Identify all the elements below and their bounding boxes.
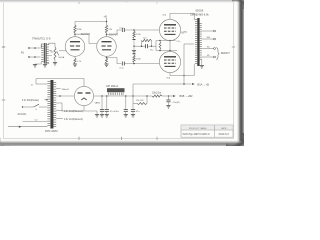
label 8 ohm OUT — [221, 51, 230, 55]
node grid R6 — [133, 63, 135, 65]
wire rail top — [156, 40, 176, 42]
bias bar R6 — [133, 53, 136, 55]
label T2 PMC 282M — [45, 130, 58, 133]
wire C5 to ground — [106, 111, 108, 114]
svg-text:5.0KΩ: 5.0KΩ — [182, 32, 188, 34]
svg-text:+B: +B — [104, 15, 108, 19]
title header date — [221, 127, 227, 130]
svg-text:25u: 25u — [150, 50, 153, 52]
svg-text:B1B →+B2: B1B →+B2 — [180, 94, 193, 98]
label filament1 — [64, 110, 83, 113]
label 50Hz — [35, 119, 39, 121]
B1B arrowhead — [173, 95, 176, 97]
wire over transformer to rectifier — [36, 79, 84, 87]
pentode V3 top — [159, 19, 180, 40]
label C4 C5 47u — [110, 111, 120, 113]
ground C7 — [131, 115, 135, 118]
input transformer T1 — [41, 43, 49, 64]
svg-text:6L6GTpp AMP KAIRO-Z: 6L6GTpp AMP KAIRO-Z — [183, 133, 211, 136]
wire R1 to V1 plate — [74, 33, 76, 37]
wire OPT center tap — [184, 43, 194, 45]
node rail top left — [159, 40, 161, 42]
label 0 ohm — [207, 55, 210, 57]
pot VR1 label — [59, 56, 65, 59]
label R3 — [77, 61, 82, 63]
node cap C6 — [125, 95, 127, 97]
capacitor C3 bias — [146, 44, 148, 48]
wire V1 plate to V2 grid — [75, 34, 97, 43]
title block vline — [214, 125, 216, 137]
label rail 2.2u — [177, 41, 181, 43]
label C1 0.1u — [120, 27, 125, 29]
wire V1 cathode — [74, 56, 76, 58]
title product text — [183, 133, 211, 136]
wire OPT sec tap A — [202, 30, 214, 32]
wire C8 to ground — [168, 102, 170, 106]
wire C7 to ground — [132, 111, 134, 114]
svg-text:5v: 5v — [31, 84, 33, 86]
wire input gnd — [30, 56, 41, 58]
title header product name — [189, 127, 207, 130]
wire heater stub2 — [56, 118, 63, 120]
page top edge fade — [0, 1, 244, 4]
wire HV tap stub — [56, 88, 60, 90]
wire input hot — [30, 47, 41, 49]
node CT riser crossing — [183, 75, 185, 77]
node HV — [59, 95, 61, 97]
label R6 270k — [136, 59, 142, 61]
output transformer OPT1 — [194, 18, 202, 66]
input terminal J1 hot — [28, 47, 30, 49]
wire +B drop — [106, 18, 108, 25]
wire rectifier bottom — [83, 106, 85, 111]
wire R9 to B1B arrow — [162, 95, 173, 97]
wire C1 to V3 grid — [124, 29, 159, 31]
wire 5v stub — [36, 83, 47, 85]
switch SW1 input dot — [22, 106, 23, 107]
wire AC cord — [8, 126, 47, 128]
border tick top 1 — [78, 0, 80, 4]
border tick bottom 1 — [78, 137, 80, 140]
wire T1 primary bottom to ground — [35, 62, 41, 64]
wire heater arrow — [45, 99, 48, 101]
node bias column — [133, 46, 134, 47]
wire HV tap to rectifier plate — [56, 95, 74, 97]
label OPT line2 — [190, 13, 209, 16]
node cap C4 — [101, 95, 103, 97]
choke CH1 — [107, 88, 125, 95]
node +B rail — [106, 21, 108, 23]
ground rectifier — [95, 115, 99, 118]
wire rectifier output — [94, 95, 152, 97]
wire C6 to ground — [125, 111, 127, 114]
wire R10 to C7 column — [133, 103, 137, 105]
node B1B cap — [168, 95, 170, 97]
resistor R7 bias — [142, 39, 152, 41]
wire C5 drop — [106, 96, 108, 109]
title date text — [218, 132, 229, 136]
svg-text:600: 600 — [51, 51, 54, 53]
label OPT 5.0K — [182, 32, 188, 34]
capacitor C2 — [122, 62, 124, 66]
wire C7 drop — [132, 96, 134, 109]
title block hline — [181, 129, 233, 131]
wire VR1 wiper to V1 grid — [59, 50, 66, 52]
svg-text:5AR4: 5AR4 — [95, 101, 101, 104]
label R9 10k2w — [152, 93, 161, 95]
capacitor C5 — [105, 110, 109, 112]
resistor R6 270k grid V4 — [133, 55, 135, 63]
bracket output — [216, 48, 219, 60]
potentiometer VR1 — [54, 47, 56, 60]
terminal 16 ohm — [214, 38, 216, 40]
label V4 6L6 — [167, 77, 171, 79]
label filament2 — [64, 118, 83, 121]
wire rail bottom — [156, 50, 177, 52]
svg-text:IN: IN — [21, 51, 24, 55]
switch SW1 input wire — [23, 106, 34, 108]
wire C2 to V4 grid — [124, 63, 159, 65]
label AC100v — [18, 113, 28, 116]
wire C4 to ground — [101, 111, 103, 114]
svg-text:6SN7GT: 6SN7GT — [109, 34, 119, 36]
svg-text:22k 2W: 22k 2W — [136, 100, 144, 102]
wire cathode rail post — [155, 41, 157, 51]
label 280mA — [62, 89, 69, 91]
wire +B rail — [75, 21, 107, 23]
node V2 cathode — [106, 57, 108, 59]
svg-text:280mΩ: 280mΩ — [62, 89, 69, 91]
wire bias net left post — [141, 41, 143, 47]
wire V3 screen stub — [181, 32, 185, 34]
terminal 8 ohm — [214, 48, 216, 50]
svg-text:AC100v: AC100v — [18, 113, 28, 116]
svg-text:PMC 282M: PMC 282M — [45, 130, 58, 133]
border tick bottom 3 — [156, 137, 158, 140]
wire C4 drop — [101, 96, 103, 109]
terminal 0 ohm — [214, 56, 216, 58]
svg-text:PRODUCT NAME: PRODUCT NAME — [189, 127, 207, 130]
wire OPT sec tap 8 — [202, 48, 214, 50]
wire R4 down — [133, 40, 135, 51]
label C7 47u — [136, 111, 140, 113]
wire OPT sec tap 16 — [202, 38, 214, 40]
svg-text:10kΩ 2w: 10kΩ 2w — [152, 93, 161, 95]
resistor R3 cathode V1 — [74, 58, 76, 64]
wire V2 cathode — [106, 56, 108, 58]
label R10 22k 2W — [136, 100, 144, 102]
ground V1 cathode — [73, 64, 77, 67]
node B1A CT — [183, 83, 185, 85]
triode V2 — [97, 37, 117, 57]
rectifier V5 plates — [78, 92, 91, 94]
ground C8 — [166, 106, 170, 109]
border tick left 1 — [2, 46, 5, 48]
wire bias net right post — [151, 41, 153, 47]
capacitor C1 — [122, 28, 124, 32]
label V5 5AR4 — [95, 101, 101, 104]
resistor R4 270k grid V3 — [133, 31, 135, 39]
node rail bottom left — [159, 50, 161, 52]
title block frame — [181, 125, 233, 137]
svg-text:B1A →+B: B1A →+B — [198, 82, 210, 86]
svg-text:CMR50 MD-6.0k: CMR50 MD-6.0k — [190, 13, 209, 16]
wire C8 drop — [168, 96, 170, 100]
label V3 6L6 — [163, 14, 167, 16]
wire V3 plate to OPT — [170, 14, 194, 20]
power transformer T2 — [47, 80, 56, 129]
wire center tap riser — [183, 44, 185, 84]
svg-text:6DC06: 6DC06 — [196, 10, 204, 13]
label choke 10H 280mA — [106, 85, 119, 88]
node V1 plate — [74, 33, 76, 35]
svg-text:500kA: 500kA — [59, 56, 65, 59]
label R4 270k — [136, 34, 142, 36]
border tick top 2 — [156, 0, 158, 4]
AC cord arrowhead — [19, 126, 22, 128]
node rail top right — [169, 40, 171, 42]
node input gnd — [34, 56, 36, 58]
terminal tap A — [214, 30, 216, 32]
label +B — [104, 15, 108, 19]
node cap C5 — [106, 95, 108, 97]
T1 secondary stub 2 — [49, 55, 52, 57]
border tick top 3 — [125, 0, 127, 3]
label R7 — [143, 38, 147, 40]
label R1 220k — [77, 29, 83, 31]
wire C3 right lead — [148, 45, 152, 47]
svg-text:TRM(UTC) O-9: TRM(UTC) O-9 — [32, 37, 51, 41]
label V2 6SN7GT — [109, 34, 119, 36]
node input hot — [34, 47, 36, 49]
svg-text:47u(M): 47u(M) — [173, 102, 180, 104]
T1 secondary stub 1 — [49, 50, 52, 52]
capacitor C8 — [166, 100, 170, 102]
wire V2 plate to C1 — [107, 30, 122, 34]
wire B1A line — [133, 83, 192, 85]
label B1B +B2 — [180, 94, 193, 98]
svg-text:2.2u: 2.2u — [177, 41, 181, 43]
node grid R4 — [133, 29, 135, 31]
svg-text:8ΩOUT: 8ΩOUT — [221, 51, 230, 55]
wire V2 plate node — [106, 33, 108, 37]
wire AC leg2 — [23, 121, 48, 123]
wire V4 plate to OPT — [170, 64, 194, 76]
resistor R2 22k plate V2 — [105, 25, 107, 33]
wire VR1 bottom to ground — [54, 60, 56, 63]
label IN — [21, 51, 24, 55]
triode V1 — [65, 37, 85, 57]
resistor R9 10k 2w — [152, 95, 162, 97]
ground OPT secondary — [200, 66, 204, 69]
svg-text:16Ω: 16Ω — [207, 37, 211, 39]
label C3 25u — [150, 50, 153, 52]
wire SW1 to T2 — [39, 106, 47, 108]
rectifier V5 filament — [81, 98, 86, 100]
wire filament loop left — [56, 103, 84, 111]
capacitor C7 — [131, 110, 135, 112]
label B1A +B — [198, 82, 210, 86]
label 5v — [31, 84, 33, 86]
pentode V4 bottom — [159, 51, 180, 72]
ground C4 — [100, 115, 104, 118]
wire screen dropper drop — [146, 96, 148, 104]
wire C3 left lead — [142, 45, 146, 47]
node bias right — [151, 45, 153, 47]
resistor R5 cathode V2 — [105, 58, 107, 64]
label V1 6SN7GT — [81, 34, 91, 36]
wire T1 secondary bottom to ground — [45, 62, 49, 63]
ground C6 — [124, 115, 128, 118]
wire filament to ground — [84, 111, 97, 115]
drawing border frame — [4, 2, 234, 138]
svg-text:47u 450v: 47u 450v — [110, 111, 120, 113]
wire rail to R1 — [74, 22, 76, 26]
wire OPT sec bottom to ground — [201, 59, 203, 65]
node bias left — [141, 45, 143, 47]
ground C5 — [105, 115, 109, 118]
resistor R8 rail — [159, 42, 161, 50]
label OPT line1 — [196, 10, 204, 13]
label 16 ohm — [207, 37, 211, 39]
label 8 ohm — [207, 47, 210, 49]
input terminal J1 gnd — [28, 56, 30, 58]
ground input secondary — [43, 65, 47, 68]
label C8 47u — [173, 102, 180, 104]
svg-text:6.3v 30A(Heater): 6.3v 30A(Heater) — [22, 99, 39, 102]
node cap C7 — [132, 95, 134, 97]
node V2 plate — [106, 34, 108, 36]
wire rail mid post — [169, 41, 171, 51]
border tick bottom 2 — [121, 137, 123, 140]
node rail bottom right — [169, 50, 171, 52]
bias bar R4 — [133, 39, 136, 41]
label SW1 — [36, 109, 38, 111]
switch SW1 blade — [34, 104, 40, 107]
resistor R1 220k plate V1 — [74, 25, 76, 33]
label C2 0.1u — [120, 68, 125, 70]
wire B1A riser — [132, 84, 134, 96]
border tick left 2 — [2, 99, 5, 101]
wire T1 secondary top to pot — [49, 43, 55, 47]
border tick right 1 — [232, 46, 235, 48]
wire OPT sec tap 0 — [202, 56, 214, 58]
wire bias net left — [134, 45, 142, 47]
capacitor C6 — [124, 110, 128, 112]
wire C6 drop — [125, 96, 127, 109]
svg-text:DATE: DATE — [221, 127, 227, 130]
pot VR1 wiper arrow — [56, 51, 59, 55]
label T1 600 — [51, 51, 54, 53]
svg-text:10H 280mA: 10H 280mA — [106, 85, 119, 88]
ground V2 cathode — [104, 64, 108, 67]
svg-text:2.5v 1A1(Filament): 2.5v 1A1(Filament) — [64, 110, 83, 113]
wire V2 cathode to C2 — [107, 58, 122, 64]
wire heater stub1 — [56, 110, 63, 112]
ground input primary — [33, 65, 37, 68]
capacitor C4 — [100, 110, 104, 112]
svg-text:2.5v 1A1(Filament): 2.5v 1A1(Filament) — [64, 118, 83, 121]
page top edge — [0, 0, 244, 2]
input transformer label TRM(UTC) O-9 — [32, 37, 51, 41]
wire bias to cathode rail — [152, 45, 157, 47]
ground grid bias — [132, 51, 136, 54]
ground VR1 — [53, 63, 57, 66]
rectifier V5 envelope — [74, 86, 93, 105]
title block header fill — [181, 125, 232, 130]
page background — [0, 0, 244, 146]
node screen dropper — [146, 95, 148, 97]
B1A arrowhead — [192, 83, 195, 85]
resistor R10 22k — [137, 103, 147, 105]
label R2 22k — [109, 29, 113, 31]
wire 5v riser — [35, 79, 37, 85]
label heater 6.3v — [22, 99, 39, 102]
